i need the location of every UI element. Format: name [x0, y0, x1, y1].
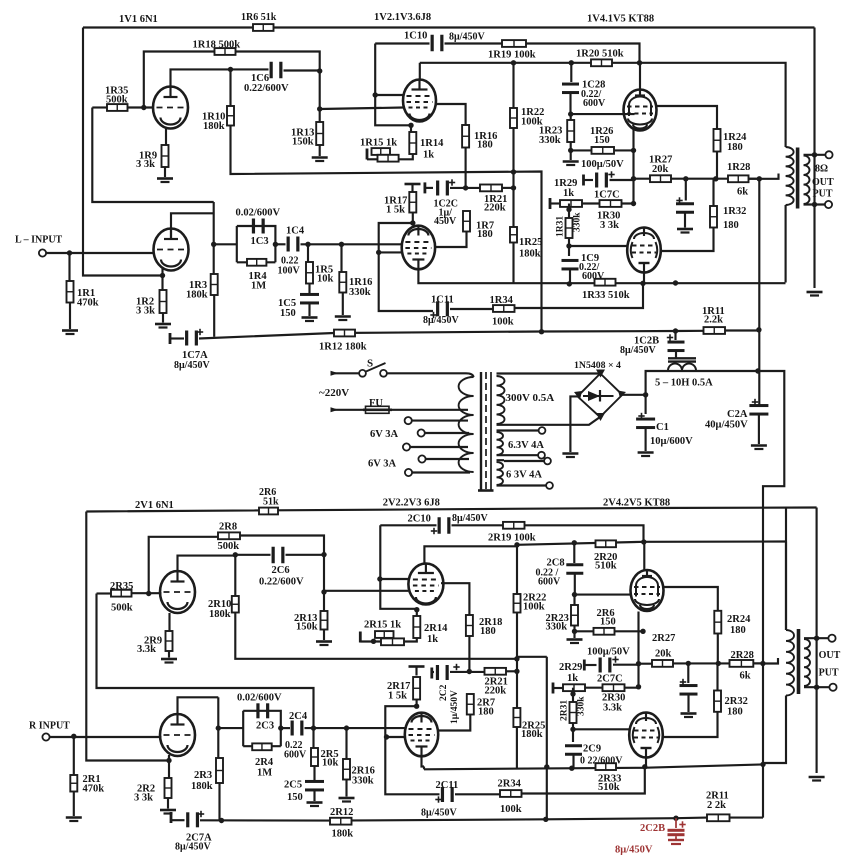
svg-text:OUT: OUT	[812, 177, 834, 188]
svg-text:6 3V 4A: 6 3V 4A	[506, 470, 542, 481]
svg-text:1C3: 1C3	[251, 236, 269, 247]
svg-text:600V: 600V	[582, 271, 605, 282]
svg-text:2C5: 2C5	[284, 780, 302, 791]
svg-text:1R12 180k: 1R12 180k	[319, 342, 367, 353]
svg-text:1μ/450V: 1μ/450V	[450, 690, 460, 724]
svg-text:470k: 470k	[83, 784, 105, 795]
svg-text:1R33 510k: 1R33 510k	[582, 290, 630, 301]
svg-text:2R15 1k: 2R15 1k	[364, 620, 401, 631]
svg-text:1V1 6N1: 1V1 6N1	[119, 14, 158, 25]
svg-text:~220V: ~220V	[319, 387, 349, 399]
svg-text:1V2.1V3.6J8: 1V2.1V3.6J8	[374, 12, 431, 23]
svg-text:180k: 180k	[203, 121, 225, 132]
svg-text:2R29: 2R29	[559, 662, 582, 673]
svg-text:100k: 100k	[500, 804, 522, 815]
svg-text:OUT: OUT	[819, 650, 841, 661]
svg-text:1C7C: 1C7C	[594, 190, 620, 201]
svg-text:10μ/600V: 10μ/600V	[650, 436, 693, 447]
svg-text:1k: 1k	[567, 673, 578, 684]
svg-text:6.3V 4A: 6.3V 4A	[508, 440, 544, 451]
svg-text:2R35: 2R35	[110, 581, 133, 592]
svg-text:6V 3A: 6V 3A	[368, 459, 397, 470]
svg-text:180k: 180k	[186, 290, 208, 301]
svg-text:180k: 180k	[191, 781, 213, 792]
svg-text:600V: 600V	[284, 750, 307, 761]
svg-text:8μ/450V: 8μ/450V	[615, 845, 653, 856]
svg-text:330k: 330k	[546, 622, 568, 633]
svg-text:2R19 100k: 2R19 100k	[488, 533, 536, 544]
svg-text:330k: 330k	[539, 135, 561, 146]
svg-text:100V: 100V	[278, 266, 301, 277]
svg-text:150: 150	[280, 308, 296, 319]
svg-text:2R34: 2R34	[498, 779, 522, 790]
svg-text:2R12: 2R12	[330, 807, 353, 818]
svg-text:150k: 150k	[296, 622, 318, 633]
svg-text:2R31: 2R31	[560, 700, 570, 721]
svg-text:1k: 1k	[563, 188, 574, 199]
svg-text:8μ/450V: 8μ/450V	[174, 360, 210, 371]
svg-text:1R28: 1R28	[727, 162, 750, 173]
svg-text:C2A: C2A	[727, 409, 748, 420]
svg-text:20k: 20k	[652, 164, 669, 175]
svg-text:180k: 180k	[332, 829, 354, 840]
svg-text:40μ/450V: 40μ/450V	[705, 420, 748, 431]
svg-text:180: 180	[727, 707, 743, 718]
svg-text:3 3k: 3 3k	[136, 306, 155, 317]
svg-text:3 3k: 3 3k	[600, 220, 619, 231]
svg-text:2C4: 2C4	[289, 711, 308, 722]
svg-text:3.3k: 3.3k	[137, 644, 156, 655]
svg-text:2C3: 2C3	[256, 721, 274, 732]
svg-text:2C9: 2C9	[583, 744, 601, 755]
svg-text:470k: 470k	[77, 298, 99, 309]
svg-text:3.3k: 3.3k	[603, 703, 622, 714]
svg-text:180: 180	[478, 707, 494, 718]
svg-text:1 5k: 1 5k	[388, 691, 407, 702]
svg-text:2V2.2V3 6J8: 2V2.2V3 6J8	[383, 498, 440, 509]
svg-text:2R27: 2R27	[652, 633, 675, 644]
svg-text:1M: 1M	[257, 768, 272, 779]
svg-text:3 3k: 3 3k	[136, 159, 155, 170]
svg-text:2V1 6N1: 2V1 6N1	[135, 500, 174, 511]
svg-text:2C11: 2C11	[436, 780, 459, 791]
svg-text:100k: 100k	[492, 317, 514, 328]
svg-text:2R4: 2R4	[255, 757, 274, 768]
svg-text:6k: 6k	[740, 671, 751, 682]
svg-text:1R20 510k: 1R20 510k	[576, 49, 624, 60]
svg-text:2C6: 2C6	[272, 565, 290, 576]
svg-text:8μ/450V: 8μ/450V	[449, 32, 485, 43]
svg-text:330k: 330k	[352, 776, 374, 787]
svg-text:2V4.2V5 KT88: 2V4.2V5 KT88	[603, 498, 670, 509]
svg-text:2R3: 2R3	[194, 770, 212, 781]
svg-text:1R32: 1R32	[723, 206, 746, 217]
svg-text:8μ/450V: 8μ/450V	[452, 513, 488, 524]
svg-text:500k: 500k	[218, 541, 240, 552]
svg-text:180k: 180k	[209, 609, 231, 620]
svg-text:220k: 220k	[485, 686, 507, 697]
svg-text:500k: 500k	[111, 603, 133, 614]
svg-text:100μ/50V: 100μ/50V	[587, 647, 630, 658]
svg-text:150: 150	[600, 617, 616, 628]
svg-text:C1: C1	[656, 422, 669, 433]
svg-text:100k: 100k	[523, 602, 545, 613]
svg-text:1R25: 1R25	[519, 237, 542, 248]
svg-text:1R18 500k: 1R18 500k	[193, 40, 241, 51]
svg-text:180: 180	[480, 626, 496, 637]
svg-text:450V: 450V	[434, 216, 457, 227]
svg-text:20k: 20k	[655, 649, 672, 660]
svg-text:150: 150	[594, 135, 610, 146]
svg-text:1M: 1M	[251, 281, 266, 292]
svg-text:0 22/600V: 0 22/600V	[580, 756, 623, 767]
svg-text:1R19 100k: 1R19 100k	[488, 50, 536, 61]
svg-text:0.22/600V: 0.22/600V	[244, 83, 289, 94]
svg-text:8μ/450V: 8μ/450V	[421, 808, 457, 819]
svg-text:10k: 10k	[317, 274, 334, 285]
svg-text:5 – 10H 0.5A: 5 – 10H 0.5A	[655, 378, 713, 389]
svg-text:2R32: 2R32	[725, 696, 748, 707]
svg-text:1 5k: 1 5k	[386, 205, 405, 216]
svg-text:1R34: 1R34	[490, 295, 514, 306]
svg-text:510k: 510k	[595, 561, 617, 572]
svg-text:2C10: 2C10	[408, 514, 431, 525]
svg-text:1k: 1k	[427, 634, 438, 645]
svg-text:180: 180	[477, 229, 493, 240]
svg-text:0.02/600V: 0.02/600V	[236, 208, 281, 219]
svg-text:180: 180	[730, 625, 746, 636]
svg-text:2R8: 2R8	[219, 522, 237, 533]
svg-text:2R28: 2R28	[731, 650, 754, 661]
svg-text:8μ/450V: 8μ/450V	[620, 345, 656, 356]
svg-text:180k: 180k	[521, 729, 543, 740]
svg-text:0.22/600V: 0.22/600V	[259, 577, 304, 588]
svg-text:2R24: 2R24	[727, 614, 751, 625]
svg-text:1V4.1V5 KT88: 1V4.1V5 KT88	[587, 14, 654, 25]
svg-text:180k: 180k	[519, 249, 541, 260]
svg-text:FU: FU	[369, 398, 383, 409]
svg-text:500k: 500k	[106, 95, 128, 106]
svg-text:8μ/450V: 8μ/450V	[175, 842, 211, 853]
svg-text:2C2B: 2C2B	[640, 823, 665, 834]
svg-text:2.2k: 2.2k	[704, 315, 723, 326]
svg-text:180: 180	[727, 142, 743, 153]
svg-text:S: S	[367, 358, 373, 370]
svg-text:600V: 600V	[583, 98, 606, 109]
svg-text:6k: 6k	[737, 187, 748, 198]
svg-text:8Ω: 8Ω	[815, 164, 828, 175]
svg-text:180: 180	[723, 220, 739, 231]
svg-text:2R14: 2R14	[424, 623, 448, 634]
svg-text:2C7C: 2C7C	[597, 674, 623, 685]
svg-text:1k: 1k	[423, 150, 434, 161]
svg-text:1R14: 1R14	[420, 138, 444, 149]
svg-text:300V 0.5A: 300V 0.5A	[506, 392, 555, 404]
svg-text:100μ/50V: 100μ/50V	[581, 159, 624, 170]
svg-text:510k: 510k	[598, 782, 620, 793]
svg-text:10k: 10k	[322, 758, 339, 769]
svg-text:1R15 1k: 1R15 1k	[360, 138, 397, 149]
svg-text:330k: 330k	[577, 696, 587, 716]
svg-text:1C10: 1C10	[404, 31, 427, 42]
svg-text:6V 3A: 6V 3A	[370, 429, 399, 440]
svg-text:180: 180	[477, 140, 493, 151]
svg-text:51k: 51k	[263, 497, 279, 508]
svg-text:PUT: PUT	[813, 189, 833, 200]
svg-text:600V: 600V	[538, 577, 561, 588]
svg-text:1R31: 1R31	[556, 216, 566, 237]
svg-text:330k: 330k	[573, 212, 583, 232]
svg-text:R INPUT: R INPUT	[29, 721, 70, 732]
svg-text:330k: 330k	[349, 287, 371, 298]
svg-text:2 2k: 2 2k	[707, 800, 726, 811]
svg-text:0.02/600V: 0.02/600V	[237, 693, 282, 704]
svg-text:150: 150	[287, 792, 303, 803]
svg-text:PUT: PUT	[819, 668, 839, 679]
svg-text:150k: 150k	[292, 137, 314, 148]
svg-text:1C11: 1C11	[431, 295, 454, 306]
svg-text:2C2: 2C2	[439, 684, 449, 701]
svg-text:1N5408 × 4: 1N5408 × 4	[574, 360, 621, 371]
svg-text:1R6 51k: 1R6 51k	[241, 12, 277, 23]
svg-text:8μ/450V: 8μ/450V	[423, 315, 459, 326]
svg-text:L – INPUT: L – INPUT	[15, 235, 63, 246]
svg-text:1C4: 1C4	[286, 226, 305, 237]
svg-text:3 3k: 3 3k	[134, 793, 153, 804]
svg-text:220k: 220k	[484, 203, 506, 214]
